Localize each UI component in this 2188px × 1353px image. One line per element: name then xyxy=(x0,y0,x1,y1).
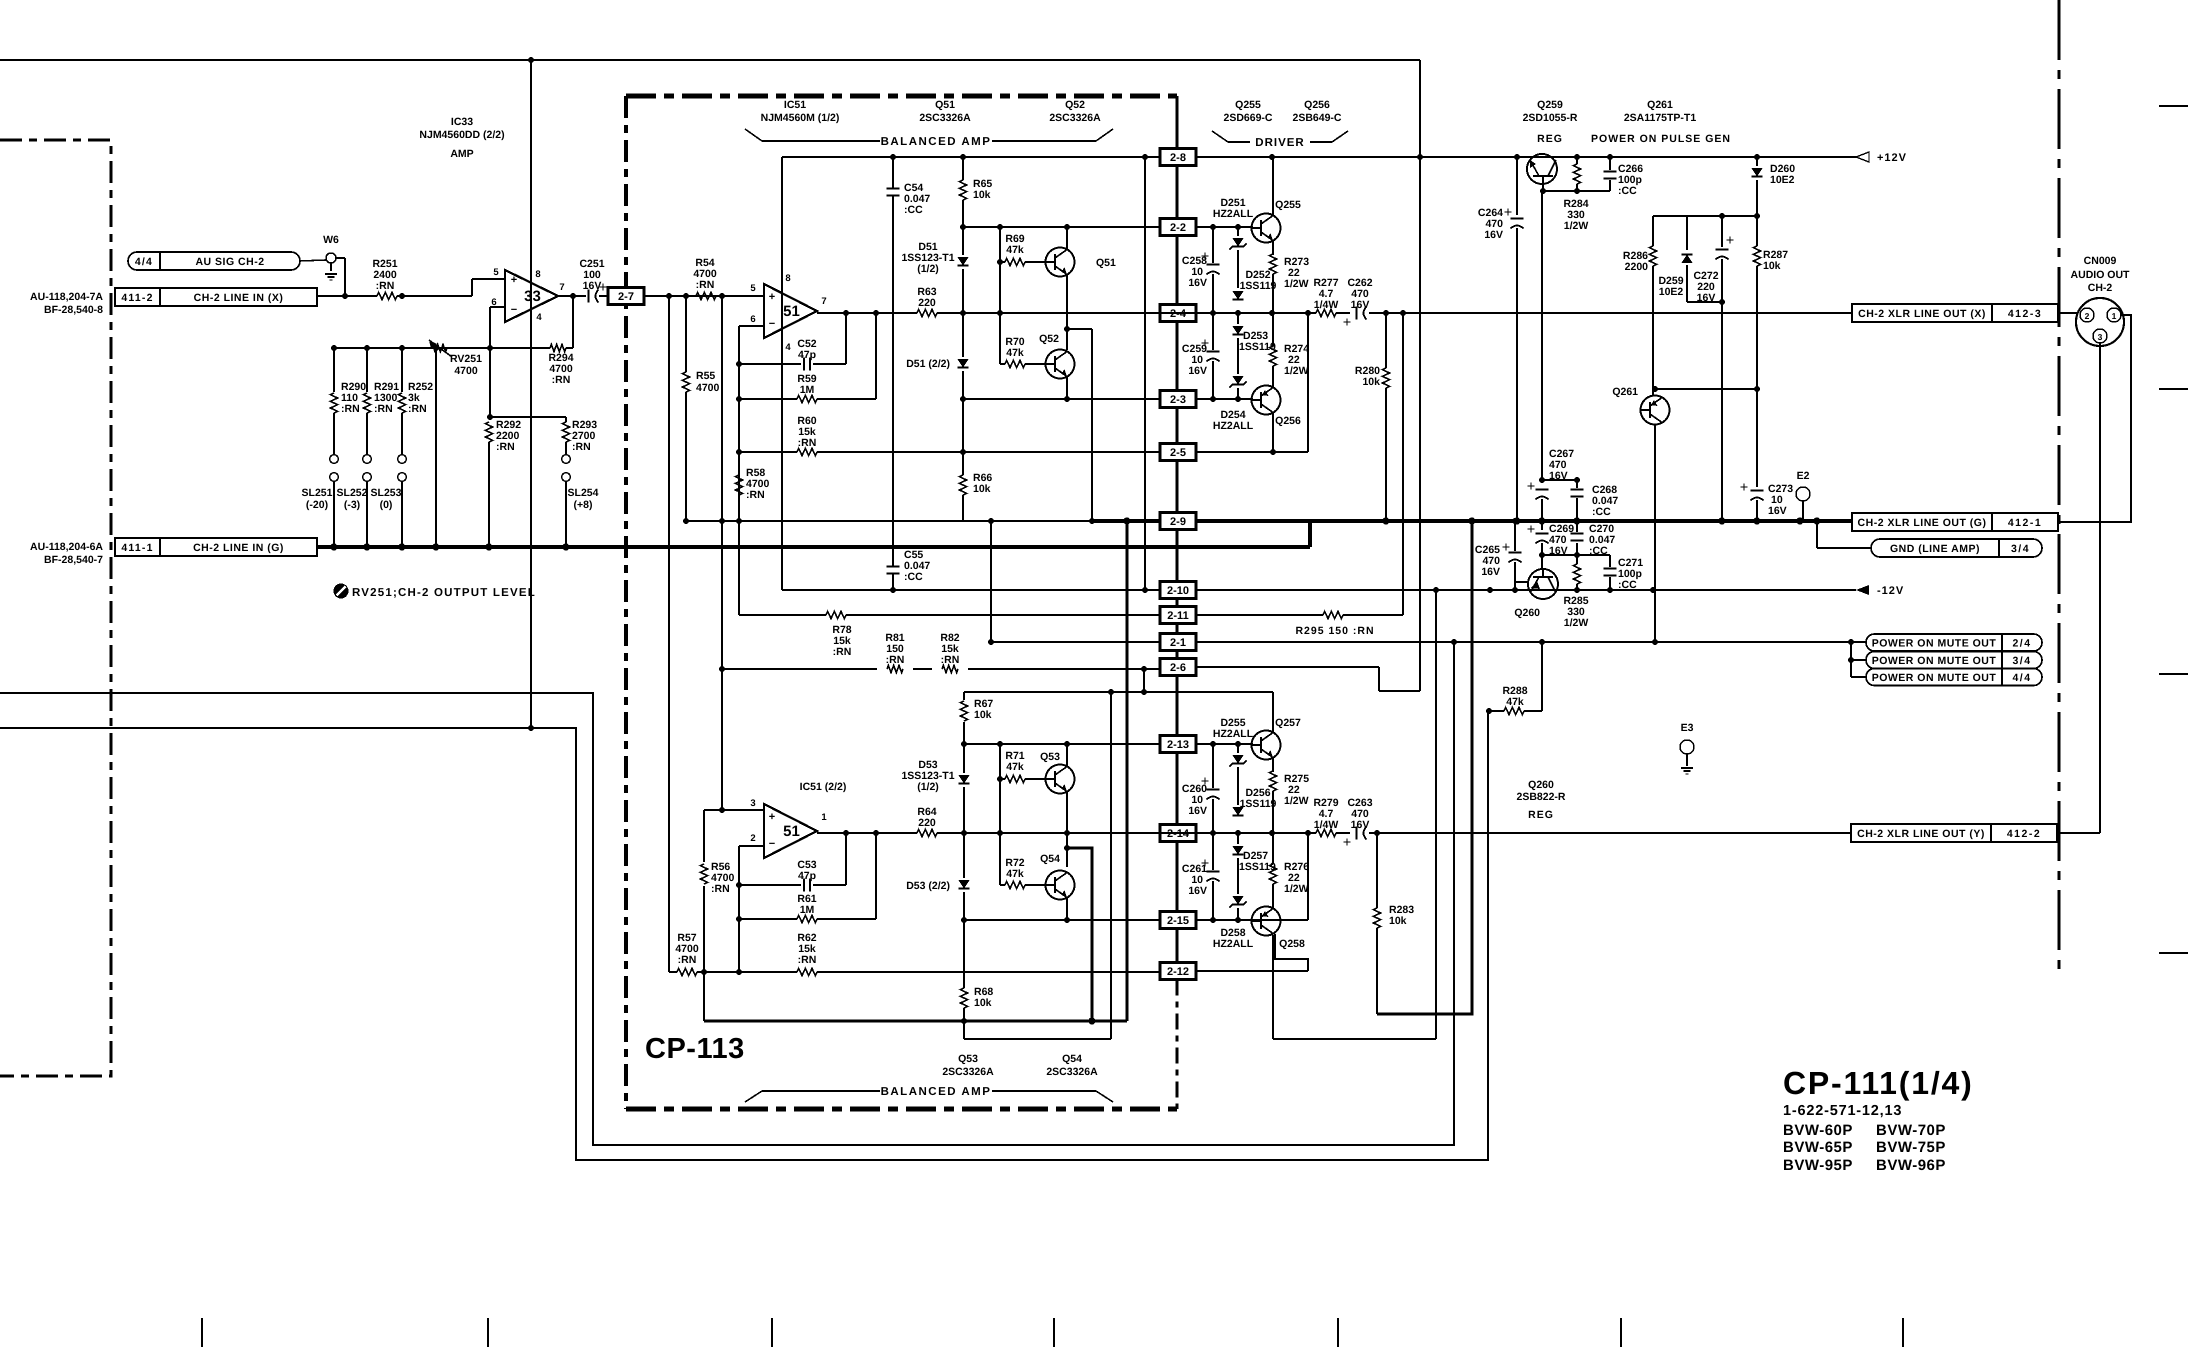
svg-text:2-14: 2-14 xyxy=(1167,828,1190,840)
svg-text:SL253: SL253 xyxy=(371,487,402,499)
resistor R59 xyxy=(739,398,797,400)
tag AU SIG CH-2 xyxy=(128,252,300,270)
svg-text:D53 (2/2): D53 (2/2) xyxy=(906,880,950,892)
svg-text:(1/2): (1/2) xyxy=(917,781,939,793)
tag POWER ON MUTE OUT 4/4 xyxy=(1850,660,1852,677)
svg-text::CC: :CC xyxy=(904,571,923,583)
svg-text::CC: :CC xyxy=(1592,506,1611,518)
wire long loop B xyxy=(0,711,1488,1160)
svg-text:10k: 10k xyxy=(974,709,992,721)
svg-text::RN: :RN xyxy=(711,883,730,895)
svg-text:47k: 47k xyxy=(1006,244,1024,256)
svg-text::RN: :RN xyxy=(833,646,852,658)
text BALANCED AMP brace bottom xyxy=(745,1091,762,1102)
text BALANCED AMP brace top xyxy=(745,129,762,141)
capacitor C259 xyxy=(1212,313,1214,350)
connector 2-2 xyxy=(1160,219,1196,236)
svg-text:4700: 4700 xyxy=(454,365,478,377)
capacitor C272 xyxy=(1721,216,1723,247)
wire IC51b plus input xyxy=(704,809,764,811)
transistor Q256 xyxy=(1252,386,1281,415)
wire 2-12 row right xyxy=(1196,970,1308,972)
svg-text:10E2: 10E2 xyxy=(1659,286,1684,298)
strap SL252 xyxy=(363,455,372,464)
wire 2-12 row inside xyxy=(669,971,677,973)
diode D51 (1/2) xyxy=(957,257,968,265)
svg-text:BVW-65P: BVW-65P xyxy=(1783,1139,1853,1156)
wire R251 to op-amp xyxy=(397,295,472,297)
diode D259 xyxy=(1686,216,1688,250)
CP-113 module dashed border xyxy=(626,94,1177,99)
capacitor C267 xyxy=(1539,477,1545,483)
wire lower column x1111 xyxy=(1110,692,1112,1039)
svg-text:−: − xyxy=(769,838,775,850)
svg-text:−: − xyxy=(769,318,775,330)
capacitor C270 xyxy=(1576,521,1578,532)
capacitor C251 xyxy=(588,290,590,303)
svg-text:Q255: Q255 xyxy=(1275,199,1301,211)
svg-text:2-8: 2-8 xyxy=(1170,152,1186,164)
svg-text:2SB649-C: 2SB649-C xyxy=(1292,112,1341,124)
wire +12V top rail xyxy=(0,59,1420,61)
transistor Q260 xyxy=(1528,569,1558,599)
tag POWER ON MUTE OUT 3/4 xyxy=(1850,642,1852,660)
transistor Q53 xyxy=(1046,765,1075,794)
wire pulse-gen top row xyxy=(1653,215,1757,217)
svg-text:6: 6 xyxy=(750,314,755,325)
wire 2-6 branch down xyxy=(1143,669,1145,692)
wire Q261 to mute row xyxy=(1654,424,1656,642)
svg-text:10k: 10k xyxy=(1362,376,1380,388)
wire base split column lower xyxy=(999,744,1001,885)
resistor R285 xyxy=(1576,555,1578,564)
resistor R279 xyxy=(1316,829,1336,836)
svg-text:16V: 16V xyxy=(1188,885,1207,897)
strap SL251 xyxy=(330,455,339,464)
wire minus node feedback xyxy=(490,416,566,418)
svg-text:16V: 16V xyxy=(1188,365,1207,377)
svg-text:2-6: 2-6 xyxy=(1170,662,1186,674)
svg-text:51: 51 xyxy=(783,823,800,840)
svg-text:16V: 16V xyxy=(1768,505,1787,517)
svg-text:+: + xyxy=(769,811,775,823)
wire base split column upper xyxy=(999,227,1001,364)
svg-text:4/4: 4/4 xyxy=(2012,672,2031,684)
tag GND (LINE AMP) 3/4 xyxy=(1816,521,1818,548)
svg-text:BVW-70P: BVW-70P xyxy=(1876,1122,1946,1139)
svg-text:47k: 47k xyxy=(1006,761,1024,773)
svg-text:D51 (2/2): D51 (2/2) xyxy=(906,358,950,370)
svg-text:POWER ON MUTE OUT: POWER ON MUTE OUT xyxy=(1872,638,1997,650)
svg-text:1/4W: 1/4W xyxy=(1314,819,1339,831)
svg-text:Q51: Q51 xyxy=(935,99,955,111)
svg-text::RN: :RN xyxy=(798,437,817,449)
svg-text:REG: REG xyxy=(1537,133,1563,145)
wire 2-10 -12V row right xyxy=(1196,589,1856,591)
svg-text:1M: 1M xyxy=(800,384,815,396)
wire Q257 collector xyxy=(1272,692,1274,732)
svg-text:W6: W6 xyxy=(323,234,339,246)
transistor Q257 xyxy=(1252,731,1281,760)
resistor R295 xyxy=(1323,611,1343,618)
wire 2-8 rail right xyxy=(1196,156,1856,158)
svg-text:2-5: 2-5 xyxy=(1170,447,1186,459)
connector 2-15 xyxy=(1160,912,1196,929)
left module dashed border xyxy=(0,140,111,1076)
svg-text:2-9: 2-9 xyxy=(1170,516,1186,528)
svg-text:Q261: Q261 xyxy=(1647,99,1673,111)
svg-text:33: 33 xyxy=(524,288,541,305)
wire Y feedback thick xyxy=(1067,848,1092,1021)
main board dashed border right xyxy=(2057,0,2060,970)
capacitor C273 xyxy=(1751,490,1764,492)
wire R295 riser xyxy=(1402,313,1404,615)
wire C54/C55 column xyxy=(892,157,894,188)
diode D51 (2/2) xyxy=(957,359,968,367)
svg-text:4: 4 xyxy=(785,342,791,353)
capacitor C55 xyxy=(887,566,900,568)
wire Q255 collector xyxy=(1272,157,1274,215)
svg-text:CH-2 XLR LINE OUT (X): CH-2 XLR LINE OUT (X) xyxy=(1858,308,1986,320)
resistor R71 xyxy=(1000,778,1005,780)
svg-text:10k: 10k xyxy=(973,189,991,201)
svg-text:HZ2ALL: HZ2ALL xyxy=(1213,420,1254,432)
svg-text::CC: :CC xyxy=(1618,579,1637,591)
svg-text::RN: :RN xyxy=(746,489,765,501)
svg-text:2SB822-R: 2SB822-R xyxy=(1516,791,1565,803)
node top rail junction xyxy=(528,57,534,63)
svg-text:AU-118,204-6A: AU-118,204-6A xyxy=(30,541,103,553)
wire CH-2 line in (X) xyxy=(317,295,377,297)
wire AU SIG to W6 xyxy=(300,260,326,261)
resistor R63 xyxy=(917,309,937,316)
transistor Q255 xyxy=(1252,214,1281,243)
svg-text::RN: :RN xyxy=(341,403,360,415)
svg-text:47p: 47p xyxy=(798,870,816,882)
svg-text:Q257: Q257 xyxy=(1275,717,1301,729)
svg-text:R55: R55 xyxy=(696,370,715,382)
svg-text:SL252: SL252 xyxy=(337,487,368,499)
connector 2-11 xyxy=(1160,607,1196,624)
svg-text:R295 150 :RN: R295 150 :RN xyxy=(1295,625,1374,637)
svg-text:2-12: 2-12 xyxy=(1167,966,1189,978)
text RV251 output level note xyxy=(334,584,349,599)
diode D53 (2/2) xyxy=(958,880,969,888)
svg-text:RV251: RV251 xyxy=(450,353,482,365)
svg-text:2SC3326A: 2SC3326A xyxy=(942,1066,994,1078)
resistor R274 xyxy=(1272,313,1274,346)
svg-text:BALANCED AMP: BALANCED AMP xyxy=(881,1086,992,1098)
svg-text:16V: 16V xyxy=(1481,566,1500,578)
potentiometer RV251 xyxy=(431,344,447,351)
svg-text:1/2W: 1/2W xyxy=(1564,617,1589,629)
svg-text:412-2: 412-2 xyxy=(2007,828,2041,840)
resistor R290 xyxy=(333,348,335,392)
border tick marks xyxy=(201,1318,203,1347)
svg-text:AUDIO OUT: AUDIO OUT xyxy=(2071,269,2131,281)
svg-text:10k: 10k xyxy=(974,997,992,1009)
wire X feedback branch xyxy=(1067,328,1092,330)
diode D257 xyxy=(1237,833,1239,844)
svg-text:AU-118,204-7A: AU-118,204-7A xyxy=(30,291,103,303)
svg-text:GND (LINE AMP): GND (LINE AMP) xyxy=(1890,543,1980,555)
svg-text:BALANCED AMP: BALANCED AMP xyxy=(881,136,992,148)
wire IC51b minus input xyxy=(739,845,764,847)
svg-text:E3: E3 xyxy=(1681,722,1694,734)
transistor Q54 xyxy=(1046,871,1075,900)
wire 2-9 row inside xyxy=(686,520,1092,522)
svg-text:2-10: 2-10 xyxy=(1167,585,1189,597)
svg-text:BF-28,540-8: BF-28,540-8 xyxy=(44,304,103,316)
svg-text:(-20): (-20) xyxy=(306,499,328,511)
resistor R252 xyxy=(401,348,403,392)
svg-text:AU SIG CH-2: AU SIG CH-2 xyxy=(195,256,264,268)
wire 2-5 row xyxy=(739,451,797,453)
svg-text:1/2W: 1/2W xyxy=(1284,278,1309,290)
svg-text:2/4: 2/4 xyxy=(2012,638,2031,650)
svg-text:1/2W: 1/2W xyxy=(1284,883,1309,895)
svg-text:HZ2ALL: HZ2ALL xyxy=(1213,938,1254,950)
wire 2-2 row right xyxy=(1196,226,1253,228)
svg-text:1/2W: 1/2W xyxy=(1564,220,1589,232)
connector 2-4 xyxy=(1160,305,1196,322)
svg-text:−: − xyxy=(511,304,517,316)
svg-text:REG: REG xyxy=(1528,809,1554,821)
wire 2-5 row right xyxy=(1196,451,1308,453)
svg-text::RN: :RN xyxy=(798,954,817,966)
wire 2-3 row xyxy=(963,398,1161,400)
svg-text:5: 5 xyxy=(750,283,756,294)
capacitor C268 xyxy=(1542,479,1577,481)
svg-text:47k: 47k xyxy=(1006,347,1024,359)
resistor R61 xyxy=(739,918,797,920)
diode D260 column xyxy=(1756,157,1758,166)
resistor R78 xyxy=(826,611,846,618)
svg-text:SL251: SL251 xyxy=(302,487,333,499)
svg-text:10k: 10k xyxy=(1389,915,1407,927)
svg-text:BF-28,540-7: BF-28,540-7 xyxy=(44,554,103,566)
resistor R273 xyxy=(1269,254,1276,274)
resistor R65 xyxy=(959,180,966,200)
resistor R64 xyxy=(917,829,937,836)
svg-text:CH-2: CH-2 xyxy=(2088,282,2113,294)
capacitor C263 xyxy=(1356,827,1358,840)
wire CH-2 line in (G) bus xyxy=(317,545,1310,549)
svg-text:Q258: Q258 xyxy=(1279,938,1305,950)
connector 2-12 xyxy=(1160,963,1196,980)
wire 2-8 rail inside xyxy=(782,156,1161,158)
wire R57 column xyxy=(668,296,670,972)
svg-text:51: 51 xyxy=(783,303,800,320)
svg-text:412-3: 412-3 xyxy=(2008,308,2042,320)
svg-text:2200: 2200 xyxy=(1625,261,1649,273)
svg-text:2SD1055-R: 2SD1055-R xyxy=(1523,112,1578,124)
svg-text::RN: :RN xyxy=(496,441,515,453)
svg-text:411-1: 411-1 xyxy=(121,542,153,554)
svg-text:2SA1175TP-T1: 2SA1175TP-T1 xyxy=(1624,112,1697,124)
wire D259 C272 bottoms xyxy=(1687,301,1722,303)
resistor R66 xyxy=(959,475,966,495)
svg-text:CP-111(1/4): CP-111(1/4) xyxy=(1783,1065,1974,1101)
wire Q256 emitter to 2-5 xyxy=(1272,413,1274,452)
resistor R292 xyxy=(485,422,492,442)
svg-text:CH-2 XLR LINE OUT (G): CH-2 XLR LINE OUT (G) xyxy=(1858,517,1987,529)
resistor R288 xyxy=(1489,710,1504,712)
transistor Q261 xyxy=(1641,396,1670,425)
resistor R60 xyxy=(797,448,817,455)
tag CH-2 XLR LINE OUT (G) 412-1 xyxy=(1852,513,2058,531)
resistor R67 xyxy=(963,692,965,700)
power arrow -12V xyxy=(1856,585,1869,595)
resistor R291 xyxy=(366,348,368,392)
connector 2-13 xyxy=(1160,736,1196,753)
tag POWER ON MUTE OUT 2/4 xyxy=(1866,634,2042,651)
svg-text:1: 1 xyxy=(821,812,827,823)
svg-text:1/2W: 1/2W xyxy=(1284,795,1309,807)
zener D255 xyxy=(1237,744,1239,753)
svg-text:IC51 (2/2): IC51 (2/2) xyxy=(800,781,847,793)
svg-text:47k: 47k xyxy=(1506,696,1524,708)
wire 2-15 row inside xyxy=(964,919,1161,921)
svg-text:Q54: Q54 xyxy=(1062,1053,1082,1065)
wire IC33 minus input xyxy=(490,306,505,308)
wire Y output row xyxy=(817,832,917,834)
svg-text:16V: 16V xyxy=(1188,805,1207,817)
svg-text:2-11: 2-11 xyxy=(1167,610,1188,622)
resistor R57 xyxy=(677,968,697,975)
svg-text:10E2: 10E2 xyxy=(1770,174,1795,186)
wire IC33 output xyxy=(558,295,586,297)
svg-text:3/4: 3/4 xyxy=(2012,655,2031,667)
svg-text::RN: :RN xyxy=(376,280,395,292)
svg-text:220: 220 xyxy=(918,297,936,309)
svg-text:2: 2 xyxy=(750,833,755,844)
svg-text:8: 8 xyxy=(785,273,790,284)
capacitor C271 xyxy=(1609,555,1611,567)
capacitor C265 xyxy=(1514,521,1516,551)
svg-text::CC: :CC xyxy=(1618,185,1637,197)
wire 2-14 row right dots xyxy=(1210,830,1216,836)
op-amp IC51 (2/2) xyxy=(764,804,817,858)
connector 2-5 xyxy=(1160,444,1196,461)
resistor R58 xyxy=(738,452,740,470)
svg-text:BVW-96P: BVW-96P xyxy=(1876,1157,1946,1174)
svg-text:2-15: 2-15 xyxy=(1167,915,1189,927)
svg-text:2SC3326A: 2SC3326A xyxy=(1049,112,1101,124)
wire XLR pin2 from 412-3 xyxy=(2058,312,2077,314)
svg-text:Q53: Q53 xyxy=(958,1053,978,1065)
svg-text:220: 220 xyxy=(918,817,936,829)
wire IC51a minus input xyxy=(739,325,764,327)
capacitor C266 xyxy=(1609,157,1611,170)
svg-text::RN: :RN xyxy=(678,954,697,966)
svg-text:(-3): (-3) xyxy=(344,499,360,511)
resistor R81 xyxy=(887,665,903,672)
svg-text:2SC3326A: 2SC3326A xyxy=(919,112,971,124)
wire 2-2 row xyxy=(963,226,1161,228)
wire 2-15 row right xyxy=(1196,919,1308,921)
svg-text:4: 4 xyxy=(536,312,542,323)
wire Q51 emitter to Q52 collector xyxy=(1066,275,1068,350)
svg-text:HZ2ALL: HZ2ALL xyxy=(1213,728,1254,740)
tag 411-2 CH-2 LINE IN (X) xyxy=(115,288,317,306)
resistor R70 xyxy=(1000,363,1005,365)
resistor R62 xyxy=(797,968,817,975)
connector 2-6 xyxy=(1160,659,1196,676)
wire Q259 emitter rail xyxy=(1543,190,1610,192)
wire 2-6 row inside xyxy=(722,668,877,670)
wire 2-9 ground bus right xyxy=(1196,519,1852,523)
resistor R251 xyxy=(377,292,397,299)
wire 2-4 row right dots xyxy=(1210,310,1216,316)
op-amp IC51 (1/2) xyxy=(764,284,817,338)
capacitor C262 xyxy=(1356,307,1358,320)
svg-text:Q259: Q259 xyxy=(1537,99,1563,111)
svg-text:+: + xyxy=(769,291,775,303)
svg-text:2-4: 2-4 xyxy=(1170,308,1187,320)
diode D253 xyxy=(1237,313,1239,324)
diode D252 xyxy=(1232,291,1243,299)
svg-text::RN: :RN xyxy=(696,279,715,291)
svg-text:Q261: Q261 xyxy=(1612,386,1638,398)
svg-text:4700: 4700 xyxy=(696,382,720,394)
svg-text:Q255: Q255 xyxy=(1235,99,1261,111)
svg-text:-12V: -12V xyxy=(1877,585,1904,597)
svg-text:BVW-75P: BVW-75P xyxy=(1876,1139,1946,1156)
svg-text:IC51: IC51 xyxy=(784,99,806,111)
wire XLR pin3 to 412-2 xyxy=(2099,343,2101,833)
svg-text:Q256: Q256 xyxy=(1275,415,1301,427)
connector 2-7 xyxy=(608,288,644,305)
svg-text:1-622-571-12,13: 1-622-571-12,13 xyxy=(1783,1103,1902,1119)
svg-text:1/4W: 1/4W xyxy=(1314,299,1339,311)
resistor R294 xyxy=(550,344,566,351)
wire Q257 emitter xyxy=(1272,758,1274,772)
svg-text::RN: :RN xyxy=(374,403,393,415)
resistor R293 xyxy=(562,422,569,442)
wire Q51 collector xyxy=(1066,227,1068,250)
op-amp IC33 (33) xyxy=(505,270,558,322)
resistor R283 xyxy=(1376,833,1378,908)
svg-text:16V: 16V xyxy=(1484,229,1503,241)
svg-text:BVW-95P: BVW-95P xyxy=(1783,1157,1853,1174)
svg-text:47p: 47p xyxy=(798,349,816,361)
connector 2-8 xyxy=(1160,149,1196,166)
svg-text:AMP: AMP xyxy=(450,148,473,160)
zener D251 xyxy=(1237,227,1239,236)
connector 2-14 xyxy=(1160,825,1196,842)
svg-text::CC: :CC xyxy=(904,204,923,216)
svg-text:CH-2 LINE IN (G): CH-2 LINE IN (G) xyxy=(193,542,284,554)
zener D258 xyxy=(1232,896,1243,904)
tag CH-2 XLR LINE OUT (Y) 412-2 xyxy=(1851,824,2057,842)
transistor Q258 xyxy=(1252,907,1281,936)
wire attenuator bus xyxy=(334,347,550,349)
tag 411-1 CH-2 LINE IN (G) xyxy=(115,538,317,556)
capacitor C54 xyxy=(887,188,900,190)
svg-text:10k: 10k xyxy=(1763,260,1781,272)
power arrow +12V xyxy=(1856,152,1869,162)
svg-text:Q260: Q260 xyxy=(1528,779,1554,791)
svg-text:3: 3 xyxy=(2098,332,2103,342)
wire Q255 emitter xyxy=(1272,241,1274,255)
wire Q260 emitter rail xyxy=(1541,555,1543,568)
wire 2-13 row right xyxy=(1196,743,1253,745)
resistor R68 xyxy=(960,988,967,1008)
resistor R55 xyxy=(685,296,687,372)
svg-text:BVW-60P: BVW-60P xyxy=(1783,1122,1853,1139)
svg-text:16V: 16V xyxy=(583,280,602,292)
